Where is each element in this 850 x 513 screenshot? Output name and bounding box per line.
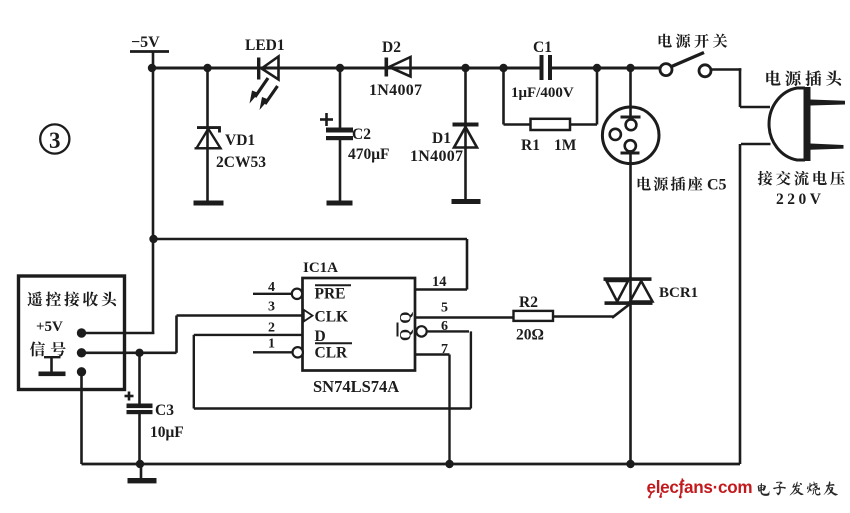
node pin7 bottom (445, 460, 453, 468)
svg-text:1M: 1M (554, 137, 577, 154)
node receiver +5V (77, 328, 86, 337)
capacitor C1 (540, 55, 553, 80)
node VD1 top (203, 64, 211, 72)
wire D loop bottom (194, 407, 471, 409)
logo elecfans (647, 477, 753, 498)
svg-text:Q: Q (398, 312, 415, 324)
svg-text:D2: D2 (382, 39, 401, 56)
label socket C5 (638, 177, 703, 191)
node C3 bottom (136, 460, 144, 468)
LED LED1 (250, 57, 279, 111)
clock triangle (304, 310, 313, 322)
pin 1 CLR (253, 337, 303, 358)
svg-text:1N4007: 1N4007 (410, 148, 463, 165)
svg-text:+5V: +5V (36, 319, 63, 335)
wire R2 to gate (553, 315, 613, 317)
wire pin14 drop (466, 239, 469, 290)
wire R1 bottom right (570, 123, 598, 126)
node R1 left (499, 64, 507, 72)
pin 4 PRE (253, 280, 302, 299)
svg-text:IC1A: IC1A (303, 260, 338, 276)
svg-text:3: 3 (49, 128, 61, 153)
label AC (758, 171, 845, 186)
label PRE (315, 285, 352, 302)
svg-text:3: 3 (268, 300, 275, 315)
svg-text:4: 4 (268, 280, 275, 295)
svg-text:2CW53: 2CW53 (216, 154, 266, 171)
wire R1 left leg (502, 68, 505, 125)
plug P1 (769, 87, 845, 161)
ground receiver internal (39, 356, 66, 376)
node receiver signal (77, 348, 86, 357)
svg-text:10μF: 10μF (150, 424, 184, 441)
svg-text:2: 2 (268, 321, 275, 336)
node logic rail (149, 235, 157, 243)
svg-text:elecfans·com: elecfans·com (647, 477, 753, 498)
svg-text:LED1: LED1 (245, 37, 285, 54)
figure number 3 (40, 124, 69, 153)
ground D1 (452, 199, 481, 204)
pin 2 D (194, 321, 303, 336)
wire CLK in (177, 314, 303, 317)
wire R1 bottom left (504, 123, 532, 126)
receiver box (19, 276, 125, 390)
resistor R2 (514, 311, 554, 321)
wire D loop left (193, 335, 195, 409)
svg-text:1μF/400V: 1μF/400V (511, 85, 574, 101)
node R1 right (593, 64, 601, 72)
svg-text:20Ω: 20Ω (516, 327, 544, 344)
ground C2 (327, 201, 353, 206)
svg-text:CLR: CLR (315, 345, 349, 362)
svg-text:6: 6 (441, 319, 448, 334)
svg-text:R1: R1 (521, 137, 540, 154)
svg-text:C5: C5 (707, 177, 727, 194)
wire switch to corner (711, 68, 741, 71)
wire socket stem top (629, 68, 632, 117)
node socket top (626, 64, 634, 72)
triac gate wire (612, 304, 631, 318)
label Q rotated (398, 312, 415, 341)
svg-text:220V: 220V (776, 191, 824, 208)
svg-text:BCR1: BCR1 (659, 285, 698, 301)
switch S1 (660, 53, 711, 77)
svg-text:PRE: PRE (315, 286, 346, 303)
wire top rail left (152, 67, 540, 70)
wire signal riser (175, 316, 178, 353)
wire logic rail (153, 238, 467, 241)
svg-text:14: 14 (432, 274, 447, 290)
wire top rail right (552, 67, 660, 70)
svg-text:C1: C1 (533, 39, 552, 56)
ground VD1 (194, 201, 224, 206)
pin 6 Qbar (416, 319, 469, 337)
svg-text:5: 5 (441, 301, 448, 316)
svg-text:7: 7 (441, 342, 448, 357)
pin 7 wire (415, 342, 450, 464)
svg-text:VD1: VD1 (225, 132, 255, 149)
diode D2 (385, 57, 411, 77)
wire plug bottom (741, 143, 771, 146)
wire D loop right (470, 331, 472, 408)
node D1 top (461, 64, 469, 72)
socket C5 (602, 107, 659, 164)
wire receiver +5V (82, 332, 155, 335)
wire BCR1 down (629, 305, 632, 464)
svg-text:−5V: −5V (131, 34, 160, 51)
node receiver gnd (77, 367, 86, 376)
svg-text:SN74LS74A: SN74LS74A (313, 377, 399, 396)
node C2 top (336, 64, 344, 72)
power label -5V (130, 34, 169, 52)
label CLR (315, 343, 353, 361)
zener diode VD1 (195, 68, 222, 201)
wire riser -5V to logic (152, 68, 155, 334)
IC IC1A box (303, 278, 416, 371)
wire socket stem bottom (629, 154, 632, 278)
wire right rail (739, 144, 742, 464)
wire -5V stem (152, 52, 155, 70)
svg-text:470μF: 470μF (348, 146, 390, 163)
svg-text:CLK: CLK (315, 309, 349, 326)
node -5V rail (148, 64, 156, 72)
resistor R1 (531, 119, 571, 130)
wire receiver gnd drop (80, 372, 83, 464)
logo chinese (758, 481, 838, 496)
svg-text:D1: D1 (432, 130, 451, 147)
label receiver (27, 292, 116, 307)
label signal (30, 341, 66, 356)
triac BCR1 (604, 277, 653, 305)
node BCR1 bottom (626, 460, 634, 468)
label plug (766, 70, 841, 86)
svg-text:R2: R2 (519, 294, 538, 311)
svg-text:C3: C3 (155, 402, 174, 419)
wire bottom rail (82, 463, 741, 466)
svg-text:1N4007: 1N4007 (369, 82, 422, 99)
wire pin 14 (415, 288, 467, 291)
wire right corner down (739, 68, 742, 107)
wire to plug top (740, 106, 770, 109)
label switch (659, 34, 728, 48)
pin 5 Q wire (415, 301, 514, 318)
ground main (128, 464, 157, 483)
wire R1 right leg (596, 68, 599, 125)
wire receiver signal (82, 351, 177, 354)
svg-text:Q: Q (398, 329, 415, 341)
capacitor C2 (320, 68, 353, 201)
svg-text:C2: C2 (352, 126, 371, 143)
svg-text:1: 1 (268, 337, 275, 352)
diode D1 (453, 68, 479, 200)
node C3 top (135, 349, 143, 357)
capacitor C3 (125, 353, 153, 464)
